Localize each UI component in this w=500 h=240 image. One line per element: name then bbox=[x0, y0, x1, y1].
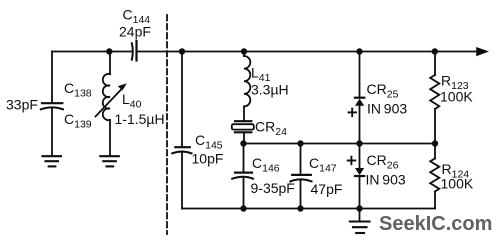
node junction C146 bottom bbox=[240, 205, 246, 211]
svg-text:IN 903: IN 903 bbox=[367, 100, 407, 116]
wire L40 bottom lead bbox=[109, 120, 111, 156]
wire C147 bottom lead bbox=[300, 180, 302, 209]
wire CR26 top lead bbox=[359, 144, 361, 169]
node junction L40/C144 bbox=[106, 48, 112, 54]
wire L41 to CR24 bbox=[243, 106, 245, 120]
crystal CR24 bbox=[232, 121, 254, 132]
svg-text:1-1.5µH: 1-1.5µH bbox=[115, 111, 165, 127]
svg-text:9-35pF: 9-35pF bbox=[251, 180, 295, 196]
wire output arrowhead bbox=[476, 47, 489, 56]
wire ground stem bbox=[359, 209, 361, 221]
node junction CR25 top bbox=[356, 48, 362, 54]
node junction C147 bottom bbox=[297, 205, 303, 211]
svg-text:L40: L40 bbox=[122, 91, 142, 111]
svg-text:100K: 100K bbox=[441, 175, 474, 191]
wire L41 top lead bbox=[243, 52, 245, 57]
node junction C145 top bbox=[179, 48, 185, 54]
capacitor C144 bbox=[132, 41, 137, 61]
label + (CR25) bbox=[349, 109, 357, 117]
svg-text:24pF: 24pF bbox=[119, 24, 151, 40]
svg-text:CR24: CR24 bbox=[255, 119, 287, 139]
node junction CR26 top bbox=[356, 140, 362, 146]
label + (CR26) bbox=[348, 157, 356, 165]
wire C147 top lead bbox=[300, 144, 302, 175]
wire CR26 bottom lead bbox=[359, 176, 361, 209]
wire CR25 bottom lead bbox=[359, 106, 361, 144]
wire R123 top lead bbox=[434, 52, 436, 76]
svg-text:100K: 100K bbox=[440, 89, 473, 105]
svg-text:C147: C147 bbox=[309, 155, 337, 175]
wire below 33pF cap bbox=[51, 108, 53, 155]
inductor L41 bbox=[244, 56, 250, 106]
wire middle horizontal bus bbox=[244, 143, 436, 145]
capacitor C147 bbox=[290, 175, 311, 182]
svg-text:CR26: CR26 bbox=[367, 152, 399, 172]
svg-text:IN 903: IN 903 bbox=[366, 171, 406, 187]
wire CR24 bottom lead bbox=[243, 132, 245, 143]
svg-text:33pF: 33pF bbox=[6, 97, 38, 113]
node junction R123 top bbox=[432, 48, 438, 54]
variable arrow through L40 bbox=[96, 83, 127, 116]
capacitor C145 bbox=[172, 147, 191, 153]
wire top horizontal bus (left of C144) bbox=[52, 51, 132, 53]
wire C145 top lead bbox=[181, 52, 183, 147]
svg-text:C146: C146 bbox=[252, 155, 280, 175]
svg-text:3.3µH: 3.3µH bbox=[251, 82, 289, 98]
wire R123 bottom lead bbox=[434, 109, 436, 144]
svg-text:CR25: CR25 bbox=[367, 81, 399, 101]
wire C145 bottom lead bbox=[181, 152, 183, 208]
resistor R123 bbox=[430, 75, 439, 109]
diode CR25 bbox=[355, 98, 364, 106]
wire CR25 top lead bbox=[359, 52, 361, 98]
node junction ground bottom bbox=[356, 205, 362, 211]
svg-text:SeekIC.com: SeekIC.com bbox=[379, 213, 492, 235]
capacitor C138/C139 33pF bbox=[41, 103, 63, 109]
ground (output filter) bbox=[350, 222, 370, 234]
node junction CR24 bottom / mid bus bbox=[240, 140, 246, 146]
svg-text:C138: C138 bbox=[64, 80, 92, 100]
svg-text:C139: C139 bbox=[64, 111, 92, 131]
resistor R124 bbox=[430, 159, 439, 192]
wire R124 top lead bbox=[434, 144, 436, 159]
wire C146 bottom lead bbox=[243, 178, 245, 209]
wire L40 top lead bbox=[109, 52, 111, 75]
wire C146 top lead bbox=[243, 144, 245, 172]
ground (33pF branch) bbox=[43, 156, 62, 166]
inductor L40 bbox=[103, 74, 110, 120]
ground (L40 branch) bbox=[100, 156, 119, 166]
wire left vertical (input) bbox=[51, 52, 53, 103]
svg-text:47pF: 47pF bbox=[311, 181, 343, 197]
node junction C147 top bbox=[297, 140, 303, 146]
svg-text:10pF: 10pF bbox=[192, 151, 224, 167]
wire bottom horizontal bus bbox=[182, 208, 435, 210]
node junction R123/R124 mid bbox=[432, 140, 438, 146]
node junction L41 top bbox=[241, 48, 247, 54]
wire R124 bottom lead bbox=[434, 192, 436, 209]
shield dashed line bbox=[166, 15, 168, 234]
capacitor C146 bbox=[232, 173, 253, 179]
diode CR26 bbox=[355, 168, 364, 176]
svg-text:C145: C145 bbox=[195, 132, 223, 152]
wire top horizontal bus (right of C144) bbox=[137, 51, 477, 53]
